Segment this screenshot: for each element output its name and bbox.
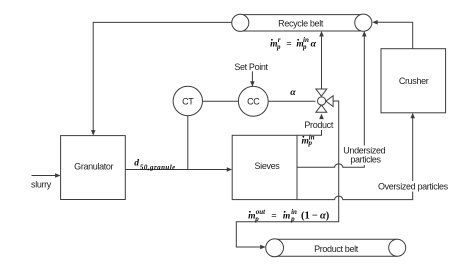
svg-text:=: = <box>271 211 276 221</box>
svg-text:in: in <box>291 208 297 216</box>
svg-text:in: in <box>309 134 315 142</box>
svg-text:p: p <box>276 43 281 51</box>
svg-text:50,granule: 50,granule <box>140 163 176 171</box>
svg-text:out: out <box>256 208 266 216</box>
svg-text:Oversized particles: Oversized particles <box>378 181 449 191</box>
svg-text:Sieves: Sieves <box>255 161 281 171</box>
svg-text:d: d <box>134 159 139 169</box>
svg-text:Granulator: Granulator <box>74 161 113 171</box>
svg-text:in: in <box>303 36 309 44</box>
svg-text:Product belt: Product belt <box>314 244 359 254</box>
svg-text:CT: CT <box>182 96 194 106</box>
svg-text:m: m <box>283 211 290 221</box>
svg-text:Set Point: Set Point <box>234 62 268 72</box>
svg-text:α: α <box>311 38 317 49</box>
svg-text:particles: particles <box>350 155 381 165</box>
svg-text:Product: Product <box>304 120 333 130</box>
svg-text:CC: CC <box>247 97 260 107</box>
svg-text:Recycle belt: Recycle belt <box>278 18 324 28</box>
svg-text:r: r <box>278 36 281 44</box>
svg-text:p: p <box>302 43 307 51</box>
svg-text:=: = <box>286 39 291 49</box>
svg-text:Crusher: Crusher <box>399 76 429 86</box>
svg-text:α: α <box>290 87 296 98</box>
svg-text:slurry: slurry <box>31 180 52 190</box>
svg-text:(1 − α): (1 − α) <box>301 210 330 221</box>
